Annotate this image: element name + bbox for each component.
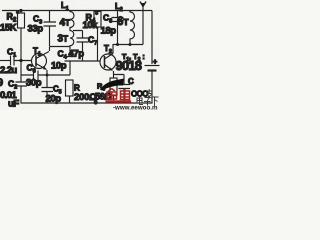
capacitor C9 emitter bypass bbox=[119, 85, 131, 104]
svg-text:10k: 10k bbox=[83, 20, 99, 31]
capacitor C1 bbox=[11, 56, 32, 66]
wire ground rail bbox=[21, 102, 153, 104]
resistor R4 bbox=[94, 11, 101, 62]
watermark red character 1 bbox=[106, 89, 119, 102]
resistor R2 bbox=[18, 11, 25, 61]
node dot L2 bottom bbox=[129, 43, 132, 46]
wire top Vcc rail bbox=[2, 10, 152, 12]
watermark red character 2 bbox=[119, 89, 132, 102]
capacitor 20p bbox=[42, 88, 54, 104]
watermark gray text glyph xia bbox=[152, 97, 159, 106]
svg-text:2.2u: 2.2u bbox=[0, 65, 17, 76]
wire T2 collector bbox=[112, 44, 114, 54]
wire T1 emitter down bbox=[46, 70, 48, 88]
wire T2 base bbox=[76, 60, 101, 62]
wire tank output bbox=[113, 44, 143, 46]
node B base junction dot bbox=[19, 59, 22, 62]
wire emitter node horizontal bbox=[21, 74, 70, 76]
svg-text:15K: 15K bbox=[0, 23, 17, 34]
wire input bbox=[0, 60, 10, 62]
svg-text:6T: 6T bbox=[117, 16, 129, 28]
svg-text:uF: uF bbox=[8, 99, 19, 110]
svg-text:+: + bbox=[153, 59, 157, 66]
capacitor C8 18p bbox=[112, 11, 124, 45]
capacitor C4 bbox=[65, 47, 76, 76]
battery B bbox=[145, 66, 160, 71]
svg-text:33p: 33p bbox=[28, 24, 44, 35]
node dot 18p bbox=[116, 43, 119, 46]
watermark gray text glyph zi bbox=[144, 98, 151, 106]
wire base line down bbox=[20, 61, 22, 83]
svg-text:18p: 18p bbox=[101, 26, 117, 37]
node emitter junction dot bbox=[46, 74, 49, 77]
svg-text:9: 9 bbox=[0, 77, 3, 89]
watermark gray text glyph dian bbox=[137, 97, 143, 105]
transistor T2 bbox=[100, 54, 116, 71]
svg-text:3T: 3T bbox=[58, 34, 69, 45]
transistor T1 bbox=[32, 52, 50, 70]
watermark small dense glyph bbox=[147, 89, 153, 98]
svg-text:C: C bbox=[128, 77, 134, 86]
resistor R6 bbox=[110, 78, 117, 104]
capacitor C3 bbox=[44, 11, 57, 47]
svg-text:9018: 9018 bbox=[116, 58, 142, 73]
inductor L2 bbox=[130, 11, 135, 45]
inductor L1 bbox=[70, 11, 74, 47]
node A junction dot top rail R2 bbox=[19, 9, 22, 12]
wire collector to tank bbox=[50, 47, 71, 52]
svg-text:4T: 4T bbox=[60, 18, 71, 29]
svg-text:-www.eewoo.m: -www.eewoo.m bbox=[113, 105, 158, 111]
capacitor C6 bbox=[34, 71, 39, 81]
svg-text:10p: 10p bbox=[51, 61, 67, 72]
svg-text:56Ω: 56Ω bbox=[95, 92, 111, 102]
svg-text:47p: 47p bbox=[69, 49, 85, 60]
watermark black swoosh bbox=[100, 79, 124, 91]
capacitor C7 bbox=[77, 38, 89, 61]
wire T2 emitter bbox=[114, 71, 125, 85]
capacitor C2 bbox=[16, 82, 28, 104]
wire L1 tap bbox=[73, 31, 83, 39]
svg-text:20p: 20p bbox=[46, 94, 62, 105]
resistor R5 bbox=[66, 80, 74, 104]
wire right edge battery branch bbox=[151, 11, 153, 104]
svg-text:30p: 30p bbox=[26, 78, 42, 89]
antenna bbox=[140, 2, 146, 45]
